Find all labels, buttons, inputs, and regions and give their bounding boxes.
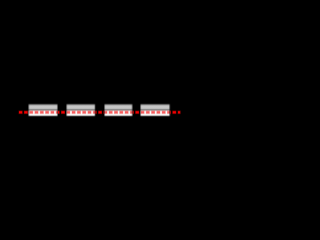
wire [19, 111, 180, 113]
resistor R4 [140, 103, 170, 117]
resistor R3 [104, 103, 133, 117]
resistor R1 [28, 103, 58, 117]
wire soft wash inside R4 [140, 111, 170, 116]
resistor R2 [66, 103, 95, 117]
R3 edge fades [104, 103, 105, 117]
R1 edge fades [28, 103, 29, 117]
wire halo [19, 111, 181, 115]
R2 edge fades [66, 103, 67, 117]
wire soft wash inside R1 [28, 111, 58, 116]
wire soft wash inside R2 [66, 111, 95, 116]
wire soft wash inside R3 [104, 111, 133, 116]
R4 edge fades [140, 103, 141, 117]
